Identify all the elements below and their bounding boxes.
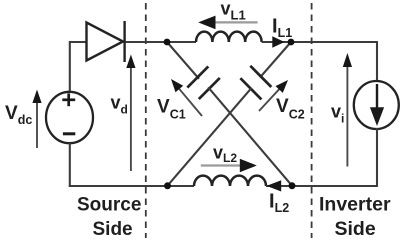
current source U1 — [354, 81, 399, 129]
svg-text:Side: Side — [93, 219, 133, 240]
bottom rail right — [266, 185, 378, 187]
node C — [164, 182, 171, 189]
wire top-left corner — [70, 42, 87, 92]
arrow V_C2 — [259, 80, 288, 111]
node D — [289, 182, 296, 189]
node A — [164, 39, 171, 46]
node B — [288, 39, 295, 46]
arrow v_i — [343, 53, 352, 167]
inductor L2 — [194, 176, 266, 186]
svg-text:Source: Source — [77, 195, 141, 216]
dashed boundary left — [145, 3, 147, 238]
wire diagonal A to C1 — [167, 42, 199, 79]
voltage source V_dc — [46, 92, 93, 143]
capacitor C2 — [240, 66, 271, 100]
arrow I_L1 — [272, 36, 284, 47]
arrow v_L1 — [198, 16, 257, 30]
svg-text:Inverter: Inverter — [319, 194, 391, 216]
dashed boundary right — [311, 3, 313, 238]
arrow v_L2 — [201, 159, 257, 173]
wire right drop to current source — [376, 41, 378, 83]
wire source bottom to rail — [69, 143, 71, 187]
capacitor C1 — [187, 66, 220, 99]
wire diagonal B to C2 — [260, 42, 291, 77]
arrow v_d — [126, 55, 135, 172]
wire C2 to C — [168, 88, 252, 186]
arrow V_C1 — [171, 79, 202, 116]
arrow I_L2 — [267, 180, 282, 191]
inductor L1 — [196, 32, 262, 42]
wire L1 to top-right corner — [262, 41, 377, 43]
bottom rail left — [69, 185, 194, 187]
wire diode to inductor L1 — [126, 41, 197, 43]
svg-text:Side: Side — [335, 218, 376, 240]
diode D — [87, 21, 125, 62]
wire C1 to D — [208, 87, 292, 185]
arrow V_dc — [32, 90, 41, 149]
wire current source to bottom rail — [376, 128, 378, 187]
